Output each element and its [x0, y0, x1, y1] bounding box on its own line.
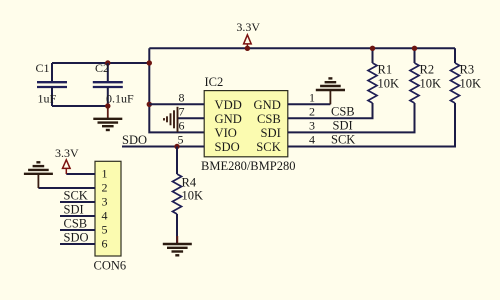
- wire CON6 pin 2 to ground: [38, 187, 95, 189]
- resistor R4: [173, 147, 204, 244]
- svg-text:8: 8: [179, 91, 185, 105]
- connector CON6 body: [95, 161, 121, 256]
- svg-text:2: 2: [102, 181, 108, 195]
- node R1 top junction: [370, 46, 375, 51]
- resistor R2: [410, 48, 441, 132]
- svg-text:2: 2: [309, 105, 315, 119]
- wire CON6 pin 4 SDI net: [60, 215, 95, 217]
- svg-text:SCK: SCK: [331, 133, 355, 147]
- svg-text:3: 3: [102, 195, 108, 209]
- svg-text:SDO: SDO: [122, 133, 147, 147]
- ground below capacitors: [93, 106, 122, 130]
- wire pin 4 SCK net: [288, 104, 455, 147]
- ground at CON6 pin 2 (flipped up): [24, 162, 53, 188]
- wire CON6 pin 5 CSB net: [60, 229, 95, 231]
- svg-text:SDO: SDO: [215, 140, 240, 154]
- svg-text:6: 6: [179, 119, 185, 133]
- wire CON6 pin 1 to 3.3V: [66, 173, 95, 175]
- wire pin 2 CSB net: [288, 104, 373, 119]
- svg-text:VIO: VIO: [215, 126, 237, 140]
- node VDD feed junction: [147, 102, 152, 107]
- svg-text:0.1uF: 0.1uF: [106, 92, 134, 106]
- wire 3.3V top rail: [149, 47, 455, 49]
- ground below R4: [163, 236, 192, 255]
- svg-text:GND: GND: [254, 98, 281, 112]
- wire SDO net (pin 5): [122, 146, 204, 148]
- wire CON6 pin 3 SCK net: [60, 201, 95, 203]
- svg-text:R2: R2: [420, 63, 435, 77]
- svg-text:CSB: CSB: [64, 217, 88, 231]
- svg-text:SDI: SDI: [333, 119, 353, 133]
- capacitor C1: [36, 61, 68, 106]
- node C2 top junction: [105, 60, 110, 65]
- svg-text:10K: 10K: [378, 77, 400, 91]
- ground at IC pin 7 (rotated left): [164, 107, 178, 132]
- ground at IC pin 1 (flipped up): [316, 78, 345, 104]
- svg-text:10K: 10K: [460, 77, 482, 91]
- svg-text:SDI: SDI: [261, 126, 281, 140]
- resistor R3: [451, 48, 482, 146]
- svg-text:VDD: VDD: [215, 98, 242, 112]
- wire pin 1 GND stub: [288, 103, 331, 105]
- wire pin 3 SDI net: [288, 104, 415, 133]
- svg-text:BME280/BMP280: BME280/BMP280: [201, 159, 295, 173]
- svg-text:CSB: CSB: [331, 105, 355, 119]
- svg-text:SCK: SCK: [64, 189, 88, 203]
- svg-text:5: 5: [102, 223, 108, 237]
- wire C1-C2 top: [52, 62, 149, 64]
- svg-text:4: 4: [309, 133, 315, 147]
- node vertical/cap-wire junction: [147, 60, 152, 65]
- svg-text:GND: GND: [215, 112, 242, 126]
- node cap ground junction: [105, 103, 110, 108]
- svg-text:R3: R3: [460, 63, 475, 77]
- svg-text:10K: 10K: [182, 189, 204, 203]
- svg-text:SDI: SDI: [64, 203, 84, 217]
- node R2 top junction: [412, 46, 417, 51]
- svg-text:1: 1: [102, 167, 108, 181]
- power 3.3V top symbol: [236, 20, 260, 48]
- svg-text:1uF: 1uF: [38, 92, 57, 106]
- svg-text:6: 6: [102, 237, 108, 251]
- svg-text:10K: 10K: [420, 77, 442, 91]
- svg-text:SDO: SDO: [64, 231, 89, 245]
- svg-text:3.3V: 3.3V: [55, 146, 79, 160]
- capacitor C2: [93, 61, 134, 106]
- node 3.3V rail junction: [245, 46, 250, 51]
- svg-text:3.3V: 3.3V: [236, 20, 260, 34]
- svg-text:1: 1: [309, 91, 315, 105]
- power 3.3V at CON6: [55, 146, 79, 174]
- svg-text:3: 3: [309, 119, 315, 133]
- svg-text:4: 4: [102, 209, 108, 223]
- resistor R1: [368, 48, 399, 118]
- IC U=IC2 body: [204, 91, 288, 157]
- svg-text:R1: R1: [378, 63, 393, 77]
- node SDO/R4 junction: [174, 144, 179, 149]
- wire C1-C2 bottom: [52, 105, 108, 107]
- wire left vertical feed + VIO pin 6: [149, 48, 204, 132]
- svg-text:CSB: CSB: [257, 112, 281, 126]
- wire CON6 pin 6 SDO net: [60, 243, 95, 245]
- svg-text:CON6: CON6: [94, 259, 127, 273]
- wire pin 8 VDD stub: [149, 103, 204, 105]
- svg-text:7: 7: [179, 105, 185, 119]
- wire pin 7 GND stub: [178, 117, 205, 119]
- CON6 pin numbers: [102, 167, 108, 251]
- svg-text:SCK: SCK: [256, 140, 281, 154]
- IC pin names right column: [254, 98, 281, 154]
- svg-text:C1: C1: [36, 61, 50, 75]
- IC pin names left column: [215, 98, 242, 154]
- svg-text:R4: R4: [182, 176, 197, 190]
- svg-text:IC2: IC2: [205, 75, 224, 89]
- svg-text:C2: C2: [95, 61, 109, 75]
